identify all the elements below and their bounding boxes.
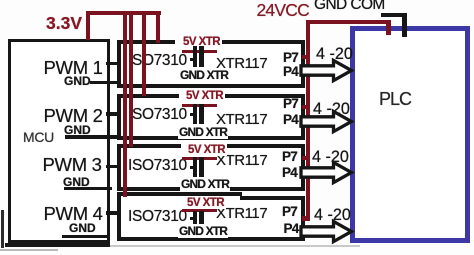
PWM1 GND label: [64, 74, 91, 88]
PWM4 GND label: [69, 221, 96, 235]
5V XTR net label row4: [180, 197, 226, 209]
PLC box: [350, 26, 470, 243]
GND COM net label: [314, 0, 385, 14]
5V net wire row4: [182, 209, 217, 212]
PWM2 GND wire: [65, 135, 124, 138]
row 3 isolator/transmitter box: [117, 144, 305, 191]
3.3V drop to row2: [142, 11, 146, 96]
5V net wire row2: [182, 104, 217, 107]
5V net wire row3: [182, 157, 217, 160]
24V stub row4: [302, 216, 310, 221]
PWM3 GND label: [63, 175, 90, 189]
GND COM wire vertical: [402, 13, 407, 37]
3.3V net label: [46, 13, 82, 34]
current loop arrow row3: [297, 159, 357, 187]
frame tick left: [1, 210, 4, 248]
row 1 isolator/transmitter box: [117, 40, 305, 88]
PLC label: [379, 89, 411, 110]
24V stub row3: [302, 156, 310, 160]
current loop arrow row2: [297, 108, 357, 136]
3.3V drop to row1: [156, 11, 160, 43]
iso U2 label: [128, 106, 187, 124]
PWM 3 label: [43, 154, 102, 176]
pin P7 row1: [283, 50, 298, 65]
3.3V drop to row3: [129, 11, 133, 147]
4-20 mA label row3: [312, 148, 349, 167]
capacitor C2: [193, 104, 204, 124]
5V net wire row1: [182, 50, 217, 53]
GND XTR net label row3: [180, 177, 230, 191]
PWM4 GND wire: [62, 235, 108, 238]
GND XTR net label row4: [178, 224, 228, 238]
pin P4 row2: [283, 112, 298, 127]
iso U4 label: [128, 208, 187, 226]
capacitor C3: [193, 157, 204, 177]
pin P4 row3: [282, 165, 297, 180]
24VCC rail wire: [306, 20, 391, 25]
3.3V drop to MCU: [86, 11, 90, 40]
GND XTR net label row2: [178, 125, 228, 139]
pin P7 row3: [282, 149, 297, 164]
GND COM wire horizontal: [381, 13, 407, 17]
xtr U6 label: [216, 111, 267, 128]
4-20 mA label row2: [313, 100, 350, 119]
4-20 mA label row4: [314, 206, 351, 225]
xtr U8 label: [216, 205, 267, 222]
current loop arrow row4: [297, 218, 357, 246]
24VCC net label: [257, 0, 309, 21]
PWM3 wire: [106, 165, 121, 169]
3.3V drop to row4: [123, 11, 127, 197]
24VCC drop wire: [306, 20, 311, 221]
row 2 isolator/transmitter box: [117, 94, 305, 140]
MCU label: [23, 129, 54, 145]
MCU bottom thick bar: [5, 243, 110, 248]
xtr U5 label: [216, 55, 267, 72]
iso U1 label: [128, 52, 187, 70]
24V stub row1: [302, 55, 310, 59]
PWM3 GND wire: [64, 187, 112, 190]
row 4 isolator/transmitter box: [117, 196, 305, 242]
GND XTR net label row1: [179, 68, 229, 82]
PWM1 wire: [106, 62, 121, 66]
xtr U7 label: [216, 152, 267, 169]
PWM2 GND label: [64, 123, 91, 137]
pin P7 row4: [282, 204, 297, 219]
row 4 top edge left part: [117, 192, 242, 196]
PWM 1 label: [44, 57, 103, 79]
5V XTR net label row3: [181, 144, 227, 156]
PWM 4 label: [44, 203, 103, 225]
4-20 mA label row1: [316, 45, 353, 64]
24V stub row2: [302, 105, 310, 109]
5V XTR net label row1: [175, 36, 222, 48]
capacitor C4: [193, 211, 204, 225]
pin P4 row1: [283, 64, 298, 79]
5V XTR net label row2: [179, 90, 225, 102]
grey artifact line bottom left: [0, 249, 58, 251]
pin P4 row4: [284, 221, 299, 236]
PWM4 wire: [106, 211, 121, 215]
3.3V rail wire: [86, 11, 161, 15]
capacitor C1: [193, 46, 204, 67]
pin P7 row2: [283, 96, 298, 111]
MCU box: [8, 39, 110, 243]
iso U3 label: [128, 157, 187, 175]
current loop arrow row1: [297, 57, 357, 85]
PWM2 wire: [106, 112, 121, 116]
grey artifact line bottom: [110, 245, 360, 247]
24VCC into PLC wire: [386, 20, 391, 35]
PWM 2 label: [44, 105, 103, 127]
row 4 top edge right part: [240, 196, 305, 200]
PWM1 GND wire: [90, 81, 120, 84]
